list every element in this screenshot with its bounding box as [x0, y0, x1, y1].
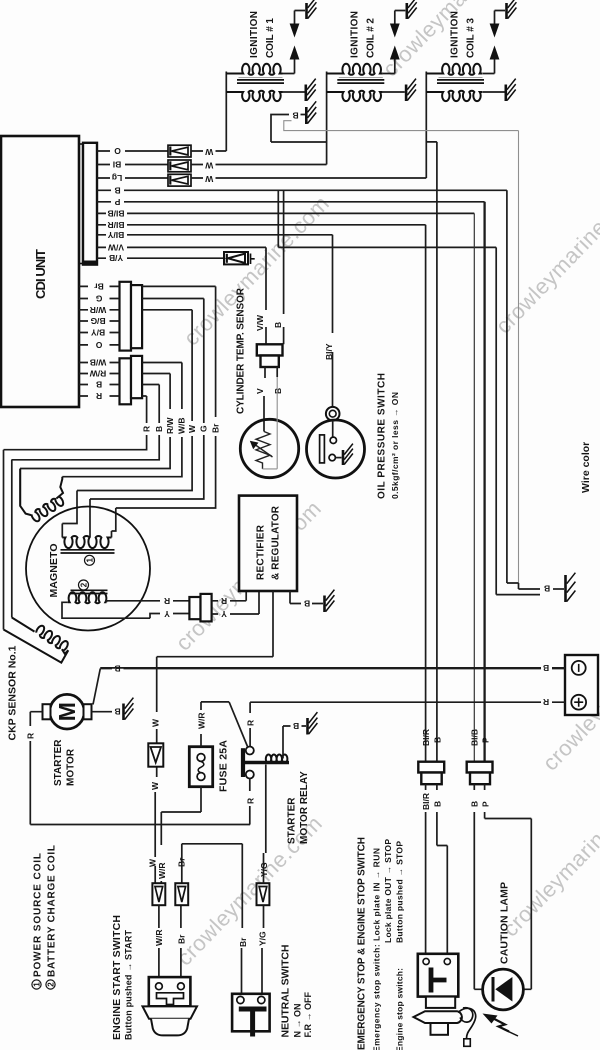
svg-text:CKP SENSOR No.1: CKP SENSOR No.1	[7, 645, 19, 740]
battery charge coil (2)	[62, 580, 189, 619]
coil3 secondary winding	[426, 64, 482, 75]
skirt	[143, 1006, 198, 1018]
wire W/R to start switch	[158, 905, 160, 977]
coil2 primary ground wire	[383, 91, 405, 93]
2pin connector B (Bl/B P)	[467, 729, 493, 807]
svg-text:Y: Y	[164, 609, 170, 619]
svg-text:B: B	[432, 737, 442, 743]
2pin connector A (Bl/R B)	[418, 729, 444, 810]
svg-text:R: R	[245, 798, 255, 804]
bundle wire W/B to CKP	[62, 437, 182, 477]
wire V below	[264, 367, 265, 432]
svg-text:BI/B: BI/B	[108, 208, 125, 218]
cylinder temp sensor	[236, 190, 299, 477]
svg-text:V/W: V/W	[107, 242, 124, 252]
fuse 25A	[161, 702, 229, 845]
CDI 6-pin connector	[120, 282, 132, 351]
svg-text:MOTOR RELAY: MOTOR RELAY	[299, 771, 310, 844]
coil1 primary ground	[306, 79, 316, 101]
svg-text:R: R	[543, 697, 549, 707]
wire B return riser	[278, 190, 496, 594]
svg-text:COIL # 2: COIL # 2	[366, 18, 377, 58]
LED triangle	[495, 977, 512, 1002]
svg-text:Button pushed → START: Button pushed → START	[124, 930, 134, 1041]
svg-text:CYLINDER TEMP. SENSOR: CYLINDER TEMP. SENSOR	[236, 287, 247, 414]
svg-text:R: R	[164, 596, 170, 606]
bundle wire R down-left	[4, 435, 147, 630]
diagonal to B bus	[93, 669, 100, 705]
wire R relay bottom	[249, 779, 251, 825]
coil2 secondary winding	[327, 64, 383, 75]
bundle wire B down-left	[12, 435, 160, 618]
svg-text:B: B	[293, 721, 299, 731]
svg-text:W: W	[150, 781, 160, 790]
wire Bl/B pin6	[97, 212, 474, 214]
wire O pin1	[97, 150, 168, 152]
starter motor	[26, 669, 251, 825]
coil2 primary winding	[327, 91, 383, 101]
coil2 primary ground	[406, 79, 416, 101]
svg-text:IGNITION: IGNITION	[450, 11, 461, 58]
svg-text:B: B	[114, 707, 120, 717]
starter motor relay	[229, 702, 317, 853]
coil2 spark gap	[383, 11, 406, 74]
coil1 core lines	[61, 550, 115, 553]
svg-text:MOTOR: MOTOR	[66, 748, 77, 786]
coil3 primary winding	[426, 91, 482, 101]
svg-text:ENGINE START SWITCH: ENGINE START SWITCH	[111, 915, 123, 1040]
thermistor B link	[263, 377, 278, 469]
wire B/Y 6pin	[79, 332, 120, 334]
wire B starter	[92, 711, 123, 713]
svg-text:FUSE 25A: FUSE 25A	[218, 740, 230, 792]
thermistor circle	[240, 419, 298, 477]
ignition coil 1	[226, 0, 316, 101]
svg-text:1: 1	[85, 558, 94, 563]
relay contact bottom	[246, 771, 254, 779]
svg-text:Lg: Lg	[112, 173, 122, 183]
coil1 spark gap	[283, 11, 306, 74]
svg-text:Engine stop switch:: Engine stop switch:	[394, 968, 404, 1050]
svg-text:CDI UNIT: CDI UNIT	[33, 249, 48, 299]
wire Bl/Y pin8	[97, 234, 333, 236]
internal ground	[335, 457, 341, 459]
svg-text:N → ON: N → ON	[293, 1003, 303, 1037]
relay coil to ground	[283, 726, 306, 759]
svg-text:COIL # 3: COIL # 3	[466, 18, 477, 58]
svg-text:G: G	[95, 294, 102, 304]
bundle wire G to magneto coil1 tap	[90, 435, 204, 538]
lead Y	[62, 602, 189, 618]
button	[426, 997, 455, 1008]
CKP sensor coil upper	[20, 469, 65, 523]
svg-text:B: B	[304, 599, 310, 609]
wire Bl pin2	[97, 164, 168, 166]
wire B thin branch	[284, 121, 519, 583]
wire Bl/B vertical right	[473, 213, 475, 762]
svg-text:P: P	[481, 801, 491, 807]
boot	[151, 1019, 189, 1036]
bullet connector W/WR	[152, 883, 165, 905]
wire Bl/R vertical right	[425, 225, 427, 762]
svg-text:B/Y: B/Y	[91, 328, 106, 338]
svg-text:Br: Br	[238, 937, 248, 947]
svg-text:R/W: R/W	[89, 369, 107, 379]
svg-text:Y: Y	[221, 609, 227, 619]
wire W/R 6pin	[79, 310, 192, 421]
internal wire	[332, 421, 334, 438]
svg-text:EMERGENCY STOP & ENGINE STOP: EMERGENCY STOP & ENGINE STOP SWITCH	[357, 837, 368, 1050]
flash arrow	[483, 1014, 498, 1024]
lead R	[107, 601, 190, 603]
relay T bar	[241, 748, 245, 777]
wire Y/B pin10	[97, 257, 224, 259]
svg-text:B: B	[154, 426, 164, 432]
ground	[564, 575, 567, 602]
svg-text:B: B	[96, 380, 102, 390]
svg-text:STARTER: STARTER	[53, 739, 64, 786]
svg-text:R: R	[246, 720, 256, 726]
svg-text:Wire color: Wire color	[580, 442, 592, 493]
contact top	[330, 437, 336, 443]
svg-text:W/R: W/R	[154, 929, 164, 946]
thermistor zigzag	[256, 432, 270, 469]
lanyard cord	[458, 1008, 476, 1038]
svg-text:R: R	[221, 596, 227, 606]
svg-text:BI/R: BI/R	[421, 793, 431, 810]
svg-text:V/W: V/W	[255, 314, 265, 331]
svg-text:BI/Y: BI/Y	[107, 230, 124, 240]
svg-text:R/W: R/W	[165, 417, 175, 435]
wire Y/G down	[264, 765, 266, 854]
LED bar	[492, 977, 495, 1002]
svg-text:B: B	[543, 663, 549, 673]
wire B below	[276, 367, 278, 377]
svg-text:R: R	[141, 426, 151, 432]
rectifier mid wire	[157, 591, 273, 712]
svg-text:B/G: B/G	[90, 316, 106, 326]
wire W coil2 feed	[191, 72, 327, 165]
svg-text:2: 2	[46, 982, 55, 987]
brush left	[43, 704, 51, 719]
CDI 4-pin connector	[120, 358, 132, 404]
bullet connector Br	[175, 883, 188, 905]
coil2 core lines	[71, 590, 108, 593]
svg-text:G: G	[199, 425, 209, 432]
ignition coil 2	[327, 0, 417, 101]
sensor connector	[257, 344, 283, 355]
wire B below connector A jog to stop switch	[437, 784, 447, 961]
svg-text:B: B	[273, 322, 283, 328]
wire R starter	[30, 712, 250, 825]
svg-text:W/B: W/B	[90, 358, 107, 368]
wire Lg pin3	[97, 177, 168, 179]
label (1)	[85, 555, 95, 565]
ground	[305, 107, 308, 124]
wire R relay top	[249, 702, 251, 746]
B ground cluster right	[496, 573, 575, 602]
coil3 spark gap	[483, 11, 505, 74]
svg-text:W: W	[204, 147, 213, 157]
plus terminal	[571, 695, 586, 710]
bundle wire R/W down-left	[20, 437, 170, 506]
rectifier ground	[323, 596, 326, 613]
label (2)	[79, 580, 89, 590]
svg-text:0.5kgf/cm² or less → ON: 0.5kgf/cm² or less → ON	[390, 392, 400, 499]
contact bottom	[329, 454, 335, 460]
emergency stop switch	[357, 837, 476, 1050]
wire Y/G through connector	[262, 840, 266, 995]
coil1 primary ground wire	[283, 91, 305, 93]
rectifier & regulator box	[239, 496, 297, 591]
ignition coil 3	[426, 0, 516, 101]
svg-text:B: B	[432, 801, 442, 807]
moving bar	[320, 435, 325, 463]
svg-text:RECTIFIER: RECTIFIER	[256, 524, 267, 580]
brush right	[84, 704, 92, 719]
wire V/W pin9	[97, 246, 266, 248]
wire B 4pin	[79, 385, 159, 424]
svg-text:M: M	[54, 702, 80, 721]
svg-text:MAGNETO: MAGNETO	[48, 544, 60, 598]
coil2 core	[337, 80, 384, 83]
svg-text:BI: BI	[113, 160, 122, 170]
svg-text:F.R → OFF: F.R → OFF	[303, 992, 313, 1038]
svg-text:Br: Br	[177, 857, 187, 867]
svg-text:Br: Br	[176, 934, 186, 944]
minus terminal	[572, 661, 586, 675]
wire R/W 4pin	[79, 374, 170, 410]
coil2 spark ground	[407, 0, 417, 19]
wire O 6pin	[79, 344, 120, 346]
CDI 10-pin connector	[80, 144, 83, 264]
svg-text:Lock plate OUT → STOP: Lock plate OUT → STOP	[383, 839, 393, 943]
svg-text:O: O	[114, 146, 121, 156]
svg-text:STARTER: STARTER	[287, 797, 298, 844]
svg-text:B: B	[544, 584, 550, 594]
wire Bl/R below connector to stop switch	[425, 784, 427, 961]
wire G 6pin	[79, 299, 204, 424]
svg-text:OIL PRESSURE SWITCH: OIL PRESSURE SWITCH	[377, 373, 388, 499]
wire R 4pin	[79, 396, 147, 423]
switch circle	[307, 420, 365, 478]
svg-text:NEUTRAL SWITCH: NEUTRAL SWITCH	[280, 945, 292, 1038]
wire B below connector B to lamp	[474, 784, 482, 989]
svg-text:R: R	[26, 733, 36, 739]
coil1 core	[237, 80, 284, 83]
wire Br from start switch up and over	[181, 844, 242, 997]
svg-text:Br: Br	[210, 423, 220, 433]
wire P vertical right	[483, 202, 485, 762]
svg-text:P: P	[114, 197, 120, 207]
diode box 2 (Bl to W)	[168, 160, 191, 172]
magneto connector	[189, 597, 200, 619]
wire B/G 6pin	[79, 320, 120, 322]
svg-text:Y/B: Y/B	[109, 253, 123, 263]
wire P pin5	[97, 201, 485, 203]
wire Bl/Y down	[332, 235, 334, 407]
svg-text:Emergency stop switch: Lock pl: Emergency stop switch: Lock plate IN → R…	[372, 848, 382, 1050]
wire W coil1 feed	[191, 72, 226, 152]
svg-text:& REGULATOR: & REGULATOR	[271, 505, 282, 580]
svg-text:CAUTION LAMP: CAUTION LAMP	[499, 882, 511, 964]
wire W coil3 feed	[191, 72, 426, 179]
bundle wire W to magneto coil1	[62, 436, 192, 538]
svg-text:R: R	[96, 391, 102, 401]
coil3 primary ground wire	[483, 91, 505, 93]
svg-text:B: B	[114, 185, 120, 195]
svg-text:W/R: W/R	[197, 712, 207, 729]
neutral switch	[232, 945, 313, 1038]
svg-text:W/R: W/R	[90, 305, 107, 315]
svg-text:B: B	[292, 111, 298, 121]
coil1 spark ground	[307, 0, 317, 19]
W diode box	[148, 743, 163, 766]
wire B down	[283, 190, 285, 344]
wire P below connector B to lamp	[485, 784, 532, 989]
B bus	[100, 668, 565, 670]
coil3 primary ground	[506, 79, 516, 101]
caution lamp	[483, 882, 524, 1036]
svg-text:Button pushed → STOP: Button pushed → STOP	[394, 841, 404, 943]
rectifier B wire	[290, 591, 323, 604]
svg-text:IGNITION: IGNITION	[350, 11, 361, 58]
svg-text:1: 1	[32, 982, 41, 987]
svg-text:W: W	[148, 858, 158, 867]
svg-text:B: B	[114, 664, 120, 674]
relay coil	[266, 754, 288, 762]
svg-text:B: B	[273, 388, 283, 394]
wire B stub coil3	[426, 142, 437, 762]
oil pressure switch	[307, 235, 401, 499]
wire Bl/R pin7	[97, 224, 426, 226]
relay contact top	[246, 747, 254, 755]
wire R to rectifier	[212, 591, 247, 601]
wire to ground	[553, 588, 564, 590]
svg-text:BI/R: BI/R	[421, 729, 431, 746]
coil1 primary winding	[226, 91, 282, 101]
engine start switch	[111, 915, 197, 1040]
diode box 1 (O to W)	[168, 145, 191, 157]
plate lower tab	[431, 1023, 449, 1035]
coil2 winding	[68, 592, 107, 603]
CKP sensor coil lower (No.1)	[4, 618, 70, 663]
wire W/R fuse top	[201, 702, 229, 747]
svg-text:P: P	[481, 737, 491, 743]
svg-text:POWER SOURCE COIL: POWER SOURCE COIL	[32, 853, 43, 977]
svg-text:IGNITION: IGNITION	[249, 11, 260, 58]
svg-text:Y/G: Y/G	[259, 862, 269, 877]
svg-text:2: 2	[79, 582, 88, 587]
svg-text:W/B: W/B	[177, 417, 187, 434]
svg-text:COIL # 1: COIL # 1	[265, 18, 276, 58]
svg-text:Y/G: Y/G	[258, 931, 268, 946]
thermistor arrow	[256, 445, 273, 457]
wire B vertical right	[506, 190, 508, 583]
svg-text:V: V	[255, 388, 265, 394]
wire W/R fuse bottom	[161, 787, 201, 845]
coil1 secondary winding	[226, 64, 282, 75]
wire B to ground	[271, 115, 305, 143]
svg-text:BI/B: BI/B	[470, 729, 480, 746]
svg-text:W: W	[151, 718, 161, 727]
wire Br 6pin	[79, 286, 216, 417]
diode box 3 (Lg to W)	[168, 174, 191, 186]
wire W/B 4pin	[79, 363, 182, 410]
B ground cluster near coil1	[271, 101, 519, 583]
svg-text:B: B	[469, 801, 479, 807]
CDI unit box	[1, 136, 79, 407]
eyelet	[326, 407, 340, 421]
wire B collect	[271, 141, 327, 143]
Y/B diode	[224, 252, 255, 264]
bundle wire Br to magneto coil1 right	[112, 436, 216, 538]
relay arm diagonal	[229, 702, 247, 747]
svg-text:W: W	[204, 174, 213, 184]
svg-text:O: O	[95, 340, 102, 350]
svg-text:W/R: W/R	[157, 862, 167, 879]
svg-text:BATTERY CHARGE COIL: BATTERY CHARGE COIL	[46, 845, 57, 977]
battery	[100, 655, 598, 715]
wire B battery	[100, 667, 565, 669]
wire B merge	[507, 583, 540, 589]
wire B pin4	[97, 189, 507, 191]
svg-text:Br: Br	[94, 281, 104, 291]
starter ground	[122, 704, 125, 721]
svg-text:BI/Y: BI/Y	[324, 343, 334, 360]
power source coil (1) winding	[61, 536, 115, 565]
wire R battery	[250, 701, 565, 703]
legend 1 power source coil	[32, 853, 43, 989]
wire V/W down	[265, 247, 267, 344]
svg-text:W: W	[204, 160, 213, 170]
wire Y to rectifier	[212, 591, 259, 614]
wire W down from rectifier mid with diode	[148, 718, 163, 857]
relay ground	[306, 718, 309, 735]
bullet connector Y/G	[257, 883, 270, 905]
coil3 core	[437, 80, 484, 83]
svg-text:W: W	[187, 424, 197, 433]
svg-text:BI/R: BI/R	[108, 220, 125, 230]
legend 2 battery charge coil	[46, 845, 57, 989]
magneto circle	[26, 507, 150, 631]
coil3 spark ground	[507, 0, 517, 19]
lock plate	[414, 1011, 462, 1023]
